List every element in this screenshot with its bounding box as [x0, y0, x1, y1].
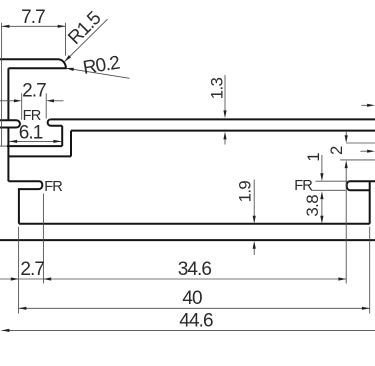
- arrow 2.7 top right: [46, 99, 54, 102]
- dim 2.7 top left tail: [0, 100, 16, 102]
- svg-text:34.6: 34.6: [178, 259, 212, 280]
- arrow 2 up: [345, 160, 348, 168]
- ledge line E: [8, 155, 71, 157]
- mating line F: [7, 145, 62, 147]
- arrow 44.6 left: [2, 329, 10, 332]
- arrow 3.8 down: [320, 216, 323, 224]
- dim 1.9 line upper: [253, 180, 255, 217]
- svg-text:2: 2: [327, 146, 346, 155]
- dim 1.3 lower tail: [224, 138, 226, 145]
- board tongue cap: [48, 119, 63, 125]
- dim 2.7 top right ext: [45, 93, 47, 118]
- lip underside thin extension: [311, 189, 346, 191]
- arrow 1 down: [320, 173, 323, 181]
- svg-text:44.6: 44.6: [179, 311, 213, 332]
- vertical V1: [70, 131, 72, 157]
- board bottom surface: [71, 130, 375, 132]
- right lip top: [347, 181, 375, 190]
- arrow R1.5: [64, 55, 71, 62]
- bottom ext x=18.6: [18, 227, 20, 314]
- arrow 2.7 bottom right: [43, 277, 51, 280]
- svg-text:FR: FR: [44, 179, 62, 195]
- arrow R0.2: [66, 68, 74, 71]
- dim 7.7 right ext: [65, 23, 67, 56]
- arrow 34.6 right: [338, 277, 346, 280]
- svg-text:FR: FR: [294, 178, 312, 194]
- dim 1.9 line lower tail: [253, 247, 255, 255]
- dim 6.1 line: [9, 140, 61, 142]
- arrow 1.9 down: [253, 216, 256, 224]
- dim 2.7 top left ext: [21, 93, 23, 119]
- svg-text:1.3: 1.3: [207, 77, 226, 99]
- board top surface: [51, 118, 375, 120]
- arrow 40 left: [19, 307, 27, 310]
- ext line 34.6 right: [345, 167, 347, 284]
- dim 7.7 line: [2, 25, 66, 27]
- arrow tail right edge: [360, 150, 369, 152]
- dim 2 lower ref line: [340, 159, 375, 161]
- right wall: [369, 181, 371, 224]
- bottom ext x=43.4: [42, 194, 44, 284]
- bottom dim line 2.7/34.6: [0, 278, 346, 280]
- svg-text:2.7: 2.7: [20, 259, 44, 280]
- underlay line: [0, 239, 375, 241]
- arrow 3.8 up: [320, 191, 323, 199]
- arrow 6.1 right: [53, 140, 61, 143]
- lip top thin extension: [316, 180, 350, 182]
- arrow 1.9 up: [253, 241, 256, 249]
- dim 40 line: [19, 307, 370, 309]
- svg-text:6.1: 6.1: [19, 123, 43, 144]
- arrow 7.7 left: [2, 25, 10, 28]
- svg-text:2.7: 2.7: [22, 80, 46, 101]
- dim 3.8 line: [321, 197, 323, 217]
- leader R1.5: [64, 19, 107, 62]
- svg-text:7.7: 7.7: [21, 7, 45, 28]
- left wall D upper: [7, 68, 9, 120]
- tongue underside vertical V2: [61, 126, 63, 146]
- left slot (FR groove): [0, 120, 20, 127]
- arrow 40 right: [362, 307, 370, 310]
- mating line F thin tail: [0, 145, 7, 147]
- top tab (7.7 step) with R1.5 fillet: [0, 59, 66, 68]
- dim 2 upper tail: [345, 132, 347, 137]
- svg-text:1.9: 1.9: [235, 181, 254, 203]
- svg-text:1: 1: [304, 153, 323, 162]
- dim 2.7 top right tail: [52, 100, 64, 102]
- svg-text:40: 40: [182, 288, 202, 309]
- left wall D lower: [7, 128, 9, 182]
- svg-text:3.8: 3.8: [303, 195, 322, 217]
- left hook with FR cap: [8, 181, 42, 224]
- dim 2 upper ref line: [346, 142, 375, 144]
- arrow 2 down: [345, 135, 348, 143]
- dim 1.3 upper line: [224, 75, 226, 112]
- ext line left C: [1, 23, 3, 146]
- arrow 1.3 up: [223, 132, 226, 140]
- dim 1 vertical line: [321, 155, 323, 175]
- svg-text:R0.2: R0.2: [81, 52, 121, 79]
- arrow top right edge: [367, 104, 375, 107]
- arrow 7.7 right: [58, 25, 66, 28]
- arrow 2 right edge: [367, 150, 375, 153]
- arrow tail top right edge: [362, 104, 370, 106]
- svg-text:R1.5: R1.5: [64, 8, 105, 49]
- arrow 2.7 top left: [14, 99, 22, 102]
- arrow 1.3 down: [223, 110, 226, 118]
- bottom edge: [19, 223, 370, 225]
- arrow 6.1 left: [9, 140, 17, 143]
- dim 44.6 line: [2, 329, 375, 331]
- leader R0.2: [66, 68, 130, 78]
- bottom ext x=369.8: [369, 227, 371, 314]
- arrow 2.7 bottom left: [11, 277, 19, 280]
